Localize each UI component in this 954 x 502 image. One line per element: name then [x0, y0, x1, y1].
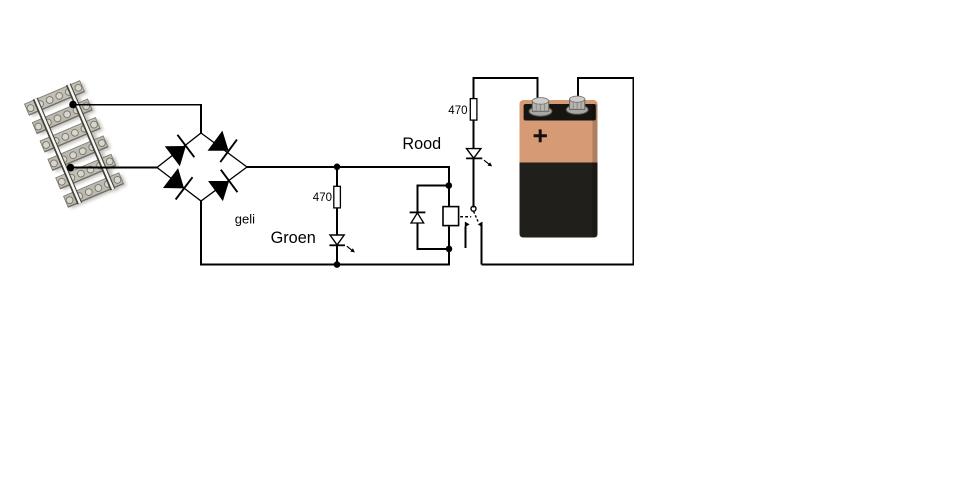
battery top face	[524, 104, 596, 121]
battery right-side shading	[593, 104, 598, 238]
wire: green branch upper	[336, 167, 338, 186]
flyback diode	[410, 212, 426, 223]
rail left	[35, 99, 80, 204]
node on right rail	[69, 101, 77, 109]
wire: resistor up and to battery plus	[473, 78, 537, 100]
track sleepers	[25, 81, 124, 208]
sleeper studs	[26, 83, 122, 204]
svg-text:Groen: Groen	[271, 229, 316, 247]
terminal -	[566, 96, 588, 114]
LED Groen	[329, 235, 355, 252]
node relay top	[446, 182, 453, 189]
contact left (NO)	[465, 222, 470, 248]
node on left rail	[67, 164, 75, 172]
contact right (to battery)	[478, 222, 483, 228]
wire: bridge right to relay column (top rail)	[247, 167, 449, 206]
battery lower section (black)	[520, 163, 598, 238]
LED Rood	[466, 149, 492, 167]
wire: switch to battery bottom rail	[481, 223, 483, 265]
resistor 470 (red branch)	[470, 99, 477, 121]
bridge rectifier diamond	[157, 133, 247, 201]
relay coil K1	[443, 207, 459, 226]
wire: red LED up to resistor	[472, 120, 474, 148]
resistor 470 (green branch)	[334, 186, 341, 208]
node top rail / green branch	[334, 164, 341, 171]
terminal +	[529, 98, 552, 117]
railroad track photo	[24, 79, 127, 211]
bridge diode D1 (top-left)	[164, 135, 194, 168]
rail right	[68, 84, 113, 189]
svg-text:geli: geli	[235, 211, 255, 226]
bridge diode D4 (bottom-right)	[207, 170, 237, 203]
plus mark	[534, 129, 547, 142]
svg-text:Rood: Rood	[402, 135, 441, 153]
battery body (tan)	[520, 100, 598, 238]
node green branch bottom	[334, 261, 341, 268]
bridge diode D2 (top-right)	[207, 129, 237, 162]
track shadow	[27, 81, 127, 209]
switch pivot	[471, 206, 476, 211]
bridge diode D3 (bottom-left)	[162, 167, 192, 200]
svg-text:470: 470	[313, 192, 332, 204]
dashed link relay to switch	[460, 216, 471, 218]
wire: green LED to bottom rail	[336, 245, 338, 264]
svg-text:470: 470	[448, 105, 467, 117]
wire: resistor to green LED	[336, 208, 338, 235]
wire: relay to bottom node	[448, 226, 450, 249]
flyback diode branch wires	[417, 186, 449, 249]
wire: track top to bridge top	[73, 105, 201, 133]
wire: battery minus loop	[482, 78, 634, 265]
sleeper shading lines	[29, 91, 123, 206]
node relay bottom	[446, 246, 453, 253]
wire: track bottom to bridge left	[70, 167, 157, 169]
wire: bottom rail from bridge bottom	[201, 201, 449, 265]
wire: switch pivot up to red LED	[472, 158, 474, 207]
switch lever (dashed)	[474, 211, 479, 222]
9V battery	[520, 96, 598, 237]
